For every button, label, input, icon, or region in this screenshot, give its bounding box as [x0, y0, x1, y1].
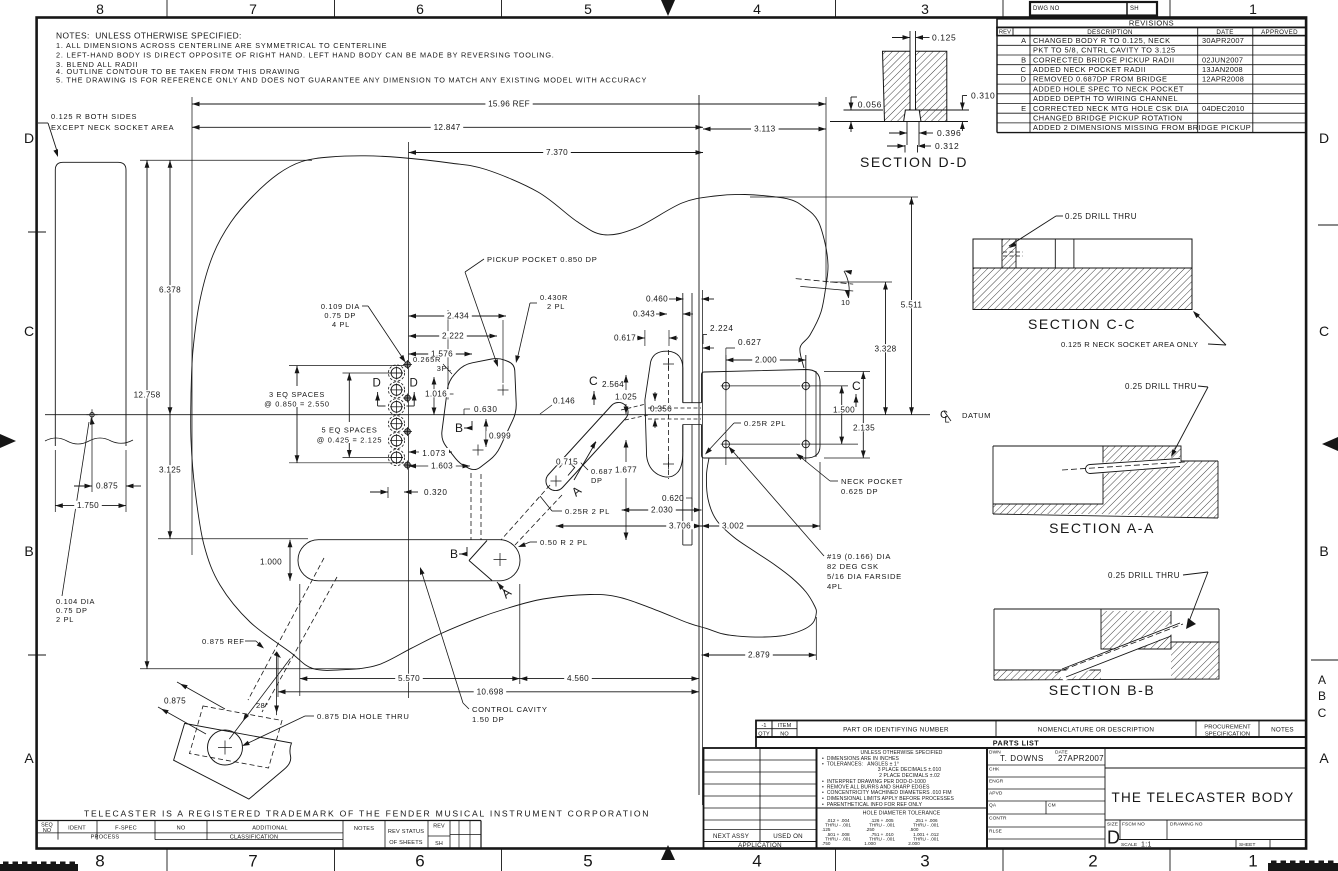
svg-text:• PARENTHETICAL INFO FOR REF: • PARENTHETICAL INFO FOR REF ONLY: [822, 802, 923, 808]
svg-text:APPROVED: APPROVED: [1261, 29, 1298, 36]
svg-text:2: 2: [1088, 852, 1097, 871]
svg-text:0.125 R BOTH SIDES: 0.125 R BOTH SIDES: [51, 112, 137, 121]
svg-text:APPLICATION: APPLICATION: [738, 842, 782, 849]
svg-text:2.434: 2.434: [447, 312, 469, 321]
svg-text:1.000: 1.000: [260, 558, 282, 567]
svg-text:5.570: 5.570: [398, 674, 420, 683]
svg-text:1.677: 1.677: [615, 466, 637, 475]
svg-text:0.356: 0.356: [650, 405, 672, 414]
svg-text:10: 10: [841, 298, 850, 307]
svg-text:.750: .750: [822, 841, 831, 846]
svg-text:7.370: 7.370: [546, 148, 568, 157]
svg-text:0.460: 0.460: [646, 295, 668, 304]
svg-text:0.343: 0.343: [633, 310, 655, 319]
svg-text:2.564: 2.564: [602, 380, 624, 389]
svg-text:PROCESS: PROCESS: [91, 835, 120, 841]
svg-text:5/16 DIA FARSIDE: 5/16 DIA FARSIDE: [827, 572, 902, 581]
svg-text:0.75 DP: 0.75 DP: [56, 606, 88, 615]
svg-text:ADDED NECK POCKET RADII: ADDED NECK POCKET RADII: [1033, 65, 1146, 74]
svg-text:DESCRIPTION: DESCRIPTION: [1087, 29, 1133, 36]
svg-text:2 PL: 2 PL: [56, 615, 74, 624]
svg-text:0.312: 0.312: [935, 141, 959, 151]
svg-text:1.603: 1.603: [431, 462, 453, 471]
svg-text:4 PL: 4 PL: [332, 320, 350, 329]
svg-text:0.999: 0.999: [489, 432, 511, 441]
svg-text:NECK POCKET: NECK POCKET: [841, 477, 903, 486]
svg-text:PKT TO 5/8, CNTRL CAVITY TO 3.: PKT TO 5/8, CNTRL CAVITY TO 3.125: [1033, 46, 1176, 55]
svg-text:NOTES: UNLESS OTHERWISE SPECI: NOTES: UNLESS OTHERWISE SPECIFIED:: [56, 31, 242, 41]
svg-text:HOLE DIAMETER TOLERANCE: HOLE DIAMETER TOLERANCE: [863, 811, 941, 817]
svg-text:12.847: 12.847: [434, 123, 461, 132]
svg-text:6: 6: [415, 852, 424, 871]
svg-text:4: 4: [752, 852, 761, 871]
svg-text:NOTES: NOTES: [1271, 727, 1294, 734]
svg-text:0.627: 0.627: [738, 338, 762, 347]
svg-text:30APR2007: 30APR2007: [1202, 36, 1244, 45]
svg-text:SECTION C-C: SECTION C-C: [1028, 316, 1136, 332]
svg-text:SECTION A-A: SECTION A-A: [1049, 520, 1155, 536]
svg-text:C: C: [1318, 706, 1327, 720]
svg-text:04DEC2010: 04DEC2010: [1202, 104, 1245, 113]
svg-text:0.875 REF: 0.875 REF: [202, 637, 245, 646]
svg-text:PARTS LIST: PARTS LIST: [993, 739, 1040, 748]
svg-text:ENGR: ENGR: [989, 779, 1004, 785]
svg-text:ADDED DEPTH TO WIRING CHANNEL: ADDED DEPTH TO WIRING CHANNEL: [1033, 94, 1178, 103]
svg-text:0.125: 0.125: [932, 33, 956, 43]
svg-text:D: D: [1107, 828, 1120, 848]
svg-text:3 EQ SPACES: 3 EQ SPACES: [269, 390, 325, 399]
svg-text:PROCUREMENT: PROCUREMENT: [1204, 725, 1251, 731]
svg-text:CLASSIFICATION: CLASSIFICATION: [230, 835, 278, 841]
svg-text:0.320: 0.320: [424, 488, 448, 497]
svg-text:B: B: [1319, 543, 1328, 559]
svg-text:5.511: 5.511: [901, 301, 923, 310]
svg-text:0.056: 0.056: [858, 100, 882, 110]
svg-text:D: D: [1021, 75, 1026, 84]
svg-text:REV: REV: [433, 824, 445, 830]
svg-text:0.875: 0.875: [96, 482, 118, 491]
svg-text:DATE: DATE: [1216, 29, 1233, 36]
svg-text:0.620: 0.620: [662, 494, 684, 503]
svg-text:0.396: 0.396: [937, 128, 961, 138]
svg-text:CHANGED BODY R TO 0.125, NECK: CHANGED BODY R TO 0.125, NECK: [1033, 36, 1171, 45]
svg-text:T. DOWNS: T. DOWNS: [1000, 754, 1044, 763]
svg-text:0.25 DRILL THRU: 0.25 DRILL THRU: [1125, 382, 1197, 391]
svg-text:SCALE: SCALE: [1121, 842, 1137, 848]
svg-text:DWG NO: DWG NO: [1033, 6, 1060, 12]
svg-text:2.030: 2.030: [651, 506, 673, 515]
svg-text:12.758: 12.758: [134, 391, 161, 400]
svg-text:PICKUP POCKET 0.850 DP: PICKUP POCKET 0.850 DP: [487, 255, 598, 264]
svg-text:0.875: 0.875: [164, 697, 186, 706]
svg-text:CORRECTED BRIDGE PICKUP RADII: CORRECTED BRIDGE PICKUP RADII: [1033, 55, 1174, 64]
svg-text:2.224: 2.224: [710, 324, 734, 333]
svg-text:3.328: 3.328: [875, 345, 897, 354]
svg-text:SHEET: SHEET: [1239, 842, 1256, 848]
svg-text:B: B: [450, 547, 458, 561]
svg-text:1.073: 1.073: [422, 449, 446, 458]
svg-text:5 EQ SPACES: 5 EQ SPACES: [321, 426, 377, 435]
svg-text:DATUM: DATUM: [962, 411, 991, 420]
svg-text:-1: -1: [761, 723, 766, 729]
svg-text:L: L: [945, 415, 950, 425]
svg-text:SECTION D-D: SECTION D-D: [860, 154, 968, 170]
svg-text:5. THE DRAWING IS FOR REFERENC: 5. THE DRAWING IS FOR REFERENCE ONLY AND…: [56, 75, 647, 84]
svg-text:1.50 DP: 1.50 DP: [472, 715, 504, 724]
svg-text:6.378: 6.378: [159, 286, 181, 295]
svg-text:PART OR IDENTIFYING NUMBER: PART OR IDENTIFYING NUMBER: [843, 727, 949, 734]
svg-text:A: A: [24, 750, 34, 766]
svg-text:APVD: APVD: [989, 791, 1003, 797]
svg-text:2.000: 2.000: [755, 356, 777, 365]
svg-text:IDENT: IDENT: [68, 826, 86, 832]
svg-text:DRAWING NO: DRAWING NO: [1170, 822, 1203, 828]
svg-text:QA: QA: [989, 803, 997, 809]
svg-text:SH: SH: [435, 841, 443, 847]
svg-text:2.222: 2.222: [442, 332, 464, 341]
svg-text:1.000: 1.000: [864, 841, 876, 846]
svg-text:C: C: [24, 323, 34, 339]
svg-text:0.687: 0.687: [591, 467, 613, 476]
svg-text:A: A: [1318, 673, 1326, 687]
svg-text:8: 8: [96, 1, 104, 17]
svg-text:#19 (0.166) DIA: #19 (0.166) DIA: [827, 552, 891, 561]
svg-text:A: A: [1319, 750, 1329, 766]
svg-text:A: A: [1021, 36, 1026, 45]
svg-text:CM: CM: [1048, 803, 1056, 809]
svg-text:FSCM NO: FSCM NO: [1122, 822, 1145, 828]
svg-text:DP: DP: [591, 476, 603, 485]
svg-text:3: 3: [921, 1, 929, 17]
svg-text:OF SHEETS: OF SHEETS: [389, 840, 423, 846]
svg-text:7: 7: [249, 1, 257, 17]
svg-text:ITEM: ITEM: [778, 723, 792, 729]
svg-text:4.560: 4.560: [567, 674, 589, 683]
svg-text:B: B: [1318, 689, 1326, 703]
svg-text:ADDED HOLE SPEC TO NECK POCKET: ADDED HOLE SPEC TO NECK POCKET: [1033, 84, 1184, 93]
svg-text:3.125: 3.125: [159, 466, 181, 475]
svg-text:THE TELECASTER BODY: THE TELECASTER BODY: [1112, 790, 1295, 805]
svg-text:0.104 DIA: 0.104 DIA: [56, 597, 95, 606]
svg-text:3: 3: [920, 852, 929, 871]
svg-text:1: 1: [1248, 852, 1257, 871]
svg-text:B: B: [24, 543, 33, 559]
svg-text:1.016: 1.016: [425, 390, 447, 399]
svg-text:REV: REV: [999, 30, 1011, 36]
svg-text:13JAN2008: 13JAN2008: [1202, 65, 1243, 74]
svg-text:0.25 DRILL THRU: 0.25 DRILL THRU: [1065, 212, 1137, 221]
svg-text:0.25 DRILL THRU: 0.25 DRILL THRU: [1108, 571, 1180, 580]
svg-text:D: D: [1319, 130, 1329, 146]
svg-text:4PL: 4PL: [827, 582, 843, 591]
svg-text:2 PL: 2 PL: [547, 302, 565, 311]
svg-text:CHK: CHK: [989, 767, 1000, 773]
svg-text:27APR2007: 27APR2007: [1058, 754, 1104, 763]
svg-text:2.879: 2.879: [748, 651, 770, 660]
svg-text:D: D: [410, 378, 418, 390]
svg-text:82 DEG CSK: 82 DEG CSK: [827, 562, 879, 571]
svg-text:B: B: [455, 421, 463, 435]
svg-text:TELECASTER IS A REGISTERED TRA: TELECASTER IS A REGISTERED TRADEMARK OF …: [84, 809, 650, 819]
svg-text:10.698: 10.698: [477, 687, 504, 696]
svg-text:0.715: 0.715: [556, 458, 578, 467]
svg-text:0.265R: 0.265R: [413, 355, 441, 364]
svg-text:NO: NO: [43, 828, 51, 834]
svg-text:REVISIONS: REVISIONS: [1129, 19, 1174, 28]
svg-text:1:1: 1:1: [1141, 842, 1152, 849]
svg-text:REV STATUS: REV STATUS: [388, 829, 424, 835]
svg-text:REMOVED 0.687DP FROM BRIDGE: REMOVED 0.687DP FROM BRIDGE: [1033, 75, 1167, 84]
svg-text:@ 0.850 = 2.550: @ 0.850 = 2.550: [264, 400, 329, 409]
svg-text:CHANGED BRIDGE PICKUP ROTATION: CHANGED BRIDGE PICKUP ROTATION: [1033, 114, 1182, 123]
svg-text:12APR2008: 12APR2008: [1202, 75, 1244, 84]
svg-text:0.875 DIA HOLE THRU: 0.875 DIA HOLE THRU: [317, 712, 410, 721]
svg-text:28°: 28°: [256, 701, 268, 710]
svg-text:0.617: 0.617: [614, 334, 636, 343]
svg-text:USED ON: USED ON: [773, 833, 803, 840]
svg-text:1. ALL DIMENSIONS ACROSS CENTE: 1. ALL DIMENSIONS ACROSS CENTERLINE ARE …: [56, 41, 387, 50]
svg-text:1.500: 1.500: [833, 406, 855, 415]
svg-text:0.50 R 2 PL: 0.50 R 2 PL: [540, 538, 588, 547]
svg-text:3.113: 3.113: [754, 125, 776, 134]
svg-text:C: C: [589, 374, 598, 388]
svg-text:0.125 R NECK SOCKET AREA ONLY: 0.125 R NECK SOCKET AREA ONLY: [1061, 340, 1198, 349]
svg-text:2. LEFT-HAND BODY IS DIRECT OP: 2. LEFT-HAND BODY IS DIRECT OPPOSITE OF …: [56, 50, 555, 59]
svg-text:CONTR: CONTR: [989, 816, 1007, 822]
svg-text:NOMENCLATURE OR DESCRIPTION: NOMENCLATURE OR DESCRIPTION: [1038, 727, 1155, 734]
svg-text:C: C: [1021, 65, 1027, 74]
svg-text:NOTES: NOTES: [354, 826, 374, 832]
svg-text:1: 1: [1249, 1, 1257, 17]
svg-text:3.706: 3.706: [669, 522, 691, 531]
svg-text:EXCEPT NECK SOCKET AREA: EXCEPT NECK SOCKET AREA: [51, 123, 174, 132]
svg-text:0.109 DIA: 0.109 DIA: [321, 302, 360, 311]
svg-text:B: B: [1021, 55, 1026, 64]
svg-text:CORRECTED NECK MTG HOLE CSK DI: CORRECTED NECK MTG HOLE CSK DIA: [1033, 104, 1189, 113]
svg-text:@ 0.425 = 2.125: @ 0.425 = 2.125: [317, 436, 382, 445]
svg-text:RLSE: RLSE: [989, 829, 1002, 835]
svg-text:0.25R 2 PL: 0.25R 2 PL: [565, 507, 610, 516]
svg-text:0.146: 0.146: [553, 397, 575, 406]
svg-text:8: 8: [95, 852, 104, 871]
svg-text:D: D: [24, 130, 34, 146]
svg-text:F-SPEC: F-SPEC: [115, 826, 137, 832]
svg-text:C: C: [852, 379, 861, 393]
svg-text:5: 5: [584, 1, 592, 17]
svg-text:02JUN2007: 02JUN2007: [1202, 55, 1243, 64]
svg-text:0.310: 0.310: [971, 91, 995, 101]
svg-text:0.430R: 0.430R: [540, 293, 568, 302]
svg-text:0.25R 2PL: 0.25R 2PL: [744, 419, 786, 428]
svg-text:3.002: 3.002: [722, 522, 744, 531]
svg-text:0.75 DP: 0.75 DP: [324, 311, 356, 320]
svg-text:2.135: 2.135: [853, 424, 875, 433]
svg-text:ADDED 2 DIMENSIONS MISSING FRO: ADDED 2 DIMENSIONS MISSING FROM BRIDGE P…: [1033, 123, 1251, 132]
svg-text:2.000: 2.000: [908, 841, 920, 846]
svg-text:7: 7: [248, 852, 257, 871]
svg-text:ADDITIONAL: ADDITIONAL: [252, 826, 288, 832]
svg-text:CONTROL CAVITY: CONTROL CAVITY: [472, 705, 548, 714]
svg-text:6: 6: [416, 1, 424, 17]
svg-text:NO: NO: [177, 826, 186, 832]
svg-text:0.630: 0.630: [474, 405, 498, 414]
svg-text:1.750: 1.750: [77, 501, 99, 510]
svg-text:15.96 REF: 15.96 REF: [488, 100, 530, 109]
svg-text:1.025: 1.025: [615, 393, 637, 402]
svg-text:C: C: [1319, 323, 1329, 339]
svg-text:NEXT ASSY: NEXT ASSY: [713, 833, 749, 840]
svg-text:5: 5: [583, 852, 592, 871]
svg-text:D: D: [373, 378, 381, 390]
svg-text:SECTION B-B: SECTION B-B: [1049, 682, 1156, 698]
svg-text:E: E: [1021, 104, 1026, 113]
svg-text:4: 4: [753, 1, 761, 17]
svg-text:SH: SH: [1130, 6, 1139, 12]
svg-text:0.625 DP: 0.625 DP: [841, 487, 878, 496]
